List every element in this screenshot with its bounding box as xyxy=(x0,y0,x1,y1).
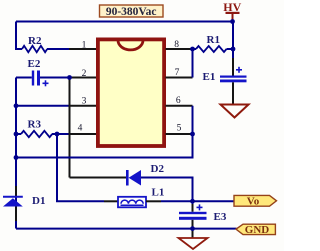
node dot rail R3 xyxy=(14,132,19,137)
pin 5 xyxy=(166,133,193,135)
pin 3 xyxy=(69,105,96,107)
pin 2 xyxy=(69,77,96,79)
svg-text:E2: E2 xyxy=(28,58,41,70)
wire pin2 drop (black) xyxy=(69,78,71,178)
wire left drop to R2 xyxy=(16,22,22,50)
power port Vo xyxy=(234,195,277,206)
wire GND row to pennant xyxy=(193,228,237,230)
ground under E1 xyxy=(221,105,249,118)
pin 6 xyxy=(166,105,193,107)
wire E3 node to Vo xyxy=(193,200,235,202)
wire R3 drop to L1 xyxy=(57,134,104,201)
ground bottom xyxy=(179,238,208,249)
svg-text:8: 8 xyxy=(174,40,179,50)
svg-text:2: 2 xyxy=(82,69,87,79)
node dot pin5 xyxy=(190,132,195,137)
svg-text:3: 3 xyxy=(82,97,87,107)
node dot R3 right xyxy=(55,132,60,137)
capacitor E1 xyxy=(220,76,247,78)
wire to D2 (black) xyxy=(70,177,127,179)
svg-text:L1: L1 xyxy=(152,187,165,199)
capacitor E2 xyxy=(16,77,32,79)
svg-text:Vo: Vo xyxy=(247,196,260,208)
node dot Vo node xyxy=(190,199,195,204)
pin 4 xyxy=(69,133,96,135)
capacitor E3 xyxy=(192,201,194,204)
node dot pin2 xyxy=(67,75,72,80)
wire D2 to corner xyxy=(141,178,193,202)
svg-text:D1: D1 xyxy=(32,195,45,207)
svg-text:1: 1 xyxy=(82,40,87,50)
node dot rail pin3 xyxy=(14,103,19,108)
wire pin3 row xyxy=(16,105,69,107)
notch xyxy=(118,40,143,50)
wire pin6/pin5 drop xyxy=(16,106,193,158)
node dot HV xyxy=(230,19,235,24)
wire left rail xyxy=(15,78,17,229)
wire L1 to E3 node xyxy=(146,200,161,202)
node dot rail y158 xyxy=(14,155,19,160)
node dot GND node xyxy=(190,226,195,231)
resistor R2 xyxy=(22,46,47,52)
diode D2 xyxy=(126,170,129,186)
svg-text:7: 7 xyxy=(175,68,180,78)
power port GND xyxy=(236,224,275,234)
node dot pin8/R1 xyxy=(190,47,195,52)
svg-text:R2: R2 xyxy=(28,35,42,47)
pin 1 xyxy=(69,48,96,50)
op-amp U1 body xyxy=(98,39,164,146)
wire pin7 to pin8 xyxy=(192,49,194,78)
svg-text:R1: R1 xyxy=(207,34,220,46)
inductor L1 xyxy=(118,197,146,208)
svg-text:R3: R3 xyxy=(28,119,42,131)
diode D1 pin stubs xyxy=(15,186,17,197)
resistor R3 xyxy=(21,131,52,137)
wire top rail xyxy=(16,21,233,23)
node dot R1/HV rail xyxy=(231,47,236,52)
wire E1 to ground xyxy=(232,82,234,104)
svg-text:D2: D2 xyxy=(151,163,165,175)
svg-text:GND: GND xyxy=(245,224,270,236)
wire HV drop xyxy=(232,22,234,59)
svg-text:E1: E1 xyxy=(203,71,216,83)
pin 8 xyxy=(166,48,193,50)
resistor R1 xyxy=(193,48,197,50)
svg-text:6: 6 xyxy=(176,96,181,106)
svg-text:E3: E3 xyxy=(214,211,227,223)
svg-text:90-380Vac: 90-380Vac xyxy=(106,6,157,18)
svg-text:4: 4 xyxy=(78,124,83,134)
wire bottom rail xyxy=(16,228,193,230)
label 90-380Vac xyxy=(100,5,164,17)
pin 7 xyxy=(166,77,193,79)
svg-text:5: 5 xyxy=(177,123,182,133)
wire to bottom ground xyxy=(192,229,194,238)
diode D1 xyxy=(3,196,23,198)
